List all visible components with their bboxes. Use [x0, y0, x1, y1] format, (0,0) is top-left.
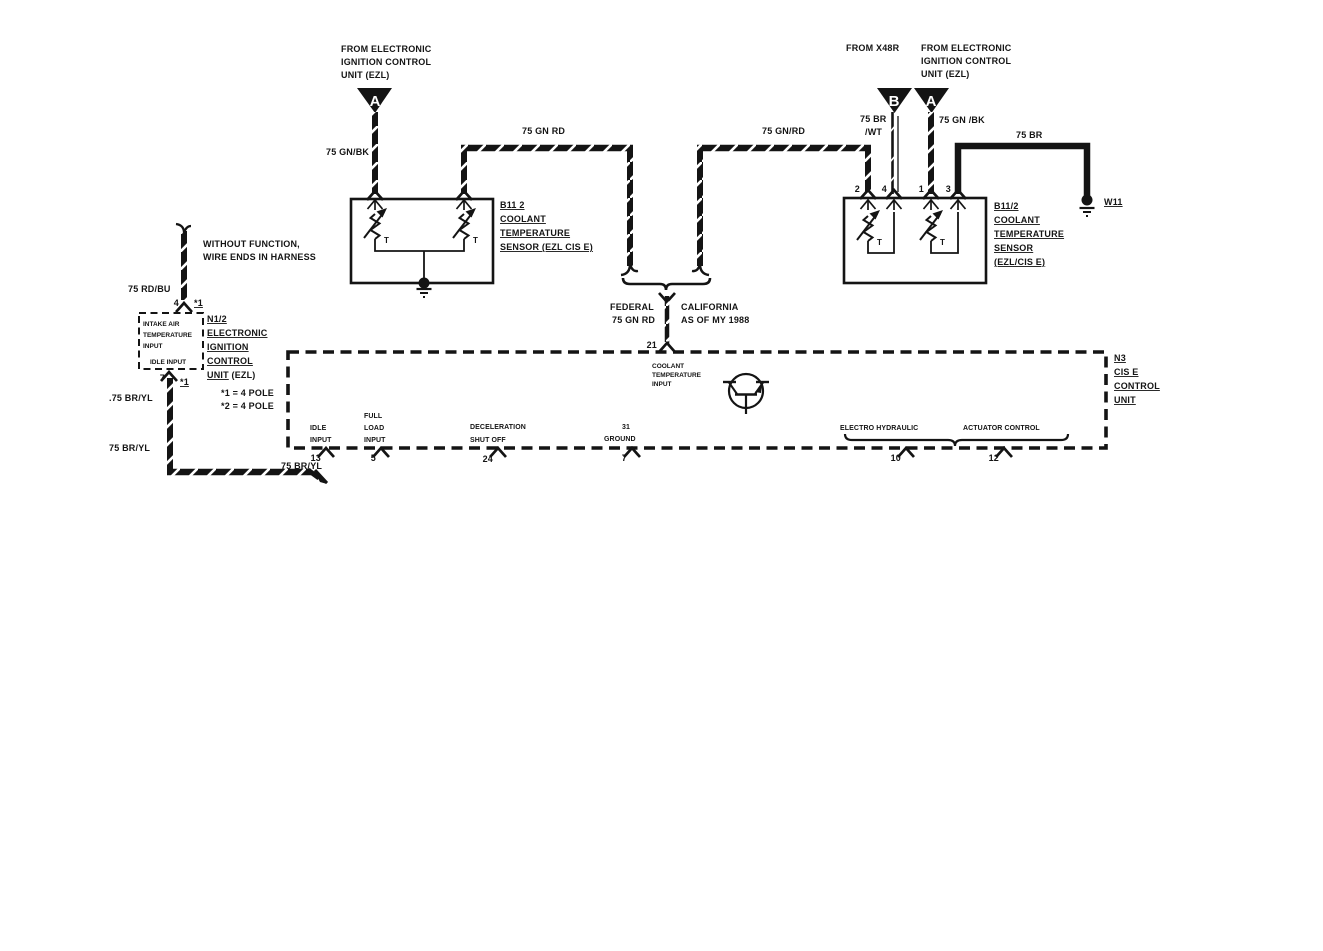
- pin arrow inside pin 3: [951, 200, 966, 210]
- pin arrow inside pin 1: [924, 200, 939, 210]
- svg-text:SENSOR (EZL CIS E): SENSOR (EZL CIS E): [500, 242, 593, 252]
- svg-text:T: T: [877, 238, 882, 247]
- pin arrow inside B11 2 right: [457, 200, 472, 210]
- svg-text:INPUT: INPUT: [364, 437, 386, 444]
- svg-text:CALIFORNIA: CALIFORNIA: [681, 302, 739, 312]
- svg-text:ELECTRONIC: ELECTRONIC: [207, 328, 268, 338]
- label CALIFORNIA AS OF MY 1988: [681, 302, 749, 325]
- svg-text:75 BR: 75 BR: [860, 114, 887, 124]
- svg-text:IGNITION CONTROL: IGNITION CONTROL: [921, 56, 1011, 66]
- label: from electronic ignition control unit (EZL) left: [341, 44, 432, 80]
- wire without function with hook end: [176, 224, 191, 300]
- svg-text:SENSOR: SENSOR: [994, 243, 1034, 253]
- svg-text:GROUND: GROUND: [604, 436, 636, 443]
- svg-text:FROM ELECTRONIC: FROM ELECTRONIC: [341, 44, 432, 54]
- arrow joining idle input wire: [308, 470, 327, 484]
- label coolant temperature input: [652, 363, 702, 388]
- wire 75 BR/WT thin pair from triangle B to pin 4: [890, 112, 898, 194]
- wire 75 GN/RD horizontal (right segment): [697, 145, 871, 152]
- svg-text:IGNITION: IGNITION: [207, 342, 249, 352]
- ground symbol under B11 2: [417, 289, 432, 297]
- svg-text:N3: N3: [1114, 353, 1126, 363]
- svg-text:TEMPERATURE: TEMPERATURE: [652, 372, 702, 379]
- svg-text:LOAD: LOAD: [364, 425, 384, 432]
- wire california option vertical with hook end: [692, 145, 709, 275]
- svg-text:N1/2: N1/2: [207, 314, 227, 324]
- svg-text:5: 5: [371, 453, 376, 463]
- inner bus wire of B11 2: [375, 239, 464, 283]
- svg-text:INTAKE AIR: INTAKE AIR: [143, 321, 180, 328]
- wire 75 GN/BK from triangle A to pin 1: [928, 112, 934, 194]
- svg-text:21: 21: [647, 340, 657, 350]
- brace selecting federal or california wire: [623, 278, 710, 290]
- transistor symbol inside N3: [723, 374, 769, 414]
- svg-text:75 GN RD: 75 GN RD: [612, 315, 655, 325]
- svg-text:IDLE INPUT: IDLE INPUT: [150, 359, 186, 366]
- svg-text:*1 = 4 POLE: *1 = 4 POLE: [221, 388, 274, 398]
- pin 12 fork and number: [989, 448, 1012, 463]
- svg-text:75 GN/BK: 75 GN/BK: [326, 147, 369, 157]
- label ELECTRO HYDRAULIC ACTUATOR CONTROL: [840, 425, 1040, 432]
- connector fork at B11 2 pin right: [456, 191, 472, 200]
- label N3 CIS E control unit: [1114, 353, 1160, 405]
- svg-text:*1: *1: [180, 377, 189, 387]
- svg-text:75 RD/BU: 75 RD/BU: [128, 284, 171, 294]
- label WITHOUT FUNCTION WIRE ENDS IN HARNESS: [203, 239, 316, 262]
- pin 24 fork and number: [483, 448, 506, 464]
- label B11/2 coolant temperature sensor (EZL/CIS E): [994, 201, 1064, 267]
- svg-text:7: 7: [622, 453, 627, 463]
- svg-text:CONTROL: CONTROL: [1114, 381, 1160, 391]
- thermistor right of B11 2: [453, 208, 478, 245]
- svg-text:13: 13: [311, 453, 321, 463]
- fork at pin 2: [860, 190, 876, 199]
- svg-text:FULL: FULL: [364, 413, 383, 420]
- svg-text:75 GN RD: 75 GN RD: [522, 126, 565, 136]
- svg-text:WITHOUT FUNCTION,: WITHOUT FUNCTION,: [203, 239, 300, 249]
- svg-text:A: A: [926, 93, 937, 110]
- wire 75 GN RD horizontal (left segment): [461, 145, 633, 152]
- label DECELERATION SHUT OFF (pin 24): [470, 424, 526, 444]
- pin arrow inside pin 2: [861, 200, 876, 210]
- svg-text:B11/2: B11/2: [994, 201, 1019, 211]
- svg-text:UNIT: UNIT: [1114, 395, 1136, 405]
- connector fork at B11 2 pin left: [367, 191, 383, 200]
- svg-text:COOLANT: COOLANT: [994, 215, 1040, 225]
- pin 5 fork and number: [371, 448, 389, 463]
- thermistor under pin 1: [920, 210, 945, 247]
- svg-text:24: 24: [483, 454, 493, 464]
- label B11 2 coolant temperature sensor: [500, 200, 593, 252]
- wire .75 BR/YL down from pin 7: [167, 378, 173, 472]
- label N1/2 electronic ignition control unit: [207, 314, 268, 380]
- thermistor under pin 2: [857, 210, 882, 247]
- off-page connector triangle B: [877, 88, 912, 113]
- svg-text:T: T: [384, 236, 389, 245]
- svg-text:75 GN/RD: 75 GN/RD: [762, 126, 805, 136]
- svg-text:UNIT (EZL): UNIT (EZL): [921, 69, 970, 79]
- svg-text:T: T: [473, 236, 478, 245]
- svg-text:SHUT OFF: SHUT OFF: [470, 437, 506, 444]
- svg-text:3: 3: [946, 184, 951, 194]
- svg-text:4: 4: [174, 298, 179, 308]
- control unit N3 dashed box: [288, 352, 1106, 448]
- wire 75 BR/YL horizontal to idle input junction: [167, 469, 311, 476]
- label 31 GROUND (pin 7): [604, 424, 636, 443]
- svg-text:TEMPERATURE: TEMPERATURE: [994, 229, 1064, 239]
- off-page connector triangle A (left): [357, 88, 392, 113]
- svg-text:ACTUATOR CONTROL: ACTUATOR CONTROL: [963, 425, 1040, 432]
- wire 75 BR from pin 3 to W11: [958, 146, 1087, 196]
- svg-text:12: 12: [989, 453, 999, 463]
- svg-text:75 BR: 75 BR: [1016, 130, 1043, 140]
- wire federal option vertical with hook end: [621, 145, 638, 275]
- pin arrow inside B11 2 left: [368, 200, 383, 210]
- svg-text:AS OF MY 1988: AS OF MY 1988: [681, 315, 749, 325]
- svg-text:ELECTRO HYDRAULIC: ELECTRO HYDRAULIC: [840, 425, 918, 432]
- sensor box B11 2: [351, 199, 493, 283]
- svg-text:COOLANT: COOLANT: [652, 363, 684, 370]
- svg-text:DECELERATION: DECELERATION: [470, 424, 526, 431]
- svg-text:IGNITION CONTROL: IGNITION CONTROL: [341, 57, 431, 67]
- dashed box N1/2 inputs: [139, 313, 203, 369]
- svg-text:UNIT (EZL): UNIT (EZL): [207, 370, 256, 380]
- svg-text:75 BR/YL: 75 BR/YL: [109, 443, 150, 453]
- inner bracket wire pins 1-3: [931, 212, 958, 253]
- svg-text:B: B: [889, 93, 900, 110]
- svg-text:UNIT (EZL): UNIT (EZL): [341, 70, 390, 80]
- off-page connector triangle A (right): [914, 88, 949, 113]
- label IDLE INPUT (pin 13): [310, 425, 332, 444]
- wire 75 GN RD vertical into B11 2 right pin: [461, 145, 467, 194]
- svg-text:(EZL/CIS E): (EZL/CIS E): [994, 257, 1045, 267]
- svg-text:COOLANT: COOLANT: [500, 214, 546, 224]
- svg-text:31: 31: [622, 424, 630, 431]
- svg-text:10: 10: [891, 453, 901, 463]
- wire 75 GN/RD into pin 2: [865, 145, 871, 194]
- svg-text:T: T: [940, 238, 945, 247]
- fork at pin 7 of N1/2: [161, 372, 177, 381]
- svg-text:*1: *1: [194, 298, 203, 308]
- label 75 BR /WT: [860, 114, 887, 137]
- svg-text:*2 = 4 POLE: *2 = 4 POLE: [221, 401, 274, 411]
- svg-text:TEMPERATURE: TEMPERATURE: [500, 228, 570, 238]
- svg-text:A: A: [370, 93, 381, 110]
- svg-text:2: 2: [855, 184, 860, 194]
- sensor box B11/2 (right): [844, 198, 986, 283]
- pin 21 fork at N3 edge: [659, 343, 675, 352]
- svg-text:CONTROL: CONTROL: [207, 356, 253, 366]
- fork at pin 4 of N1/2: [176, 303, 192, 312]
- svg-text:W11: W11: [1104, 197, 1123, 207]
- pin arrow inside pin 4: [887, 200, 902, 210]
- pin 7 fork and number: [622, 448, 640, 463]
- svg-text:75 GN /BK: 75 GN /BK: [939, 115, 985, 125]
- svg-text:IDLE: IDLE: [310, 425, 327, 432]
- svg-text:.75 BR/YL: .75 BR/YL: [109, 393, 153, 403]
- svg-text:INPUT: INPUT: [652, 381, 672, 388]
- label FEDERAL 75 GN RD: [610, 302, 655, 325]
- label FULL LOAD INPUT (pin 5): [364, 413, 386, 444]
- svg-text:4: 4: [882, 184, 887, 194]
- ground node dot of B11 2: [419, 278, 430, 289]
- fork at pin 4: [886, 190, 902, 199]
- inner bracket wire pins 2-4: [868, 212, 894, 253]
- ground node W11 (right): [1080, 195, 1095, 217]
- wire 75 GN/BK from triangle A to B11 2 pin: [372, 112, 378, 194]
- svg-text:WIRE ENDS IN HARNESS: WIRE ENDS IN HARNESS: [203, 252, 316, 262]
- fork at pin 3: [950, 190, 966, 199]
- wire from brace to pin 21: [659, 293, 675, 344]
- label intake air temperature input: [143, 321, 193, 366]
- svg-text:INPUT: INPUT: [143, 343, 163, 350]
- brace for actuator control pins: [845, 434, 1068, 446]
- pin 13 fork and number: [311, 448, 334, 463]
- svg-text:CIS E: CIS E: [1114, 367, 1139, 377]
- svg-text:/WT: /WT: [865, 127, 882, 137]
- svg-text:INPUT: INPUT: [310, 437, 332, 444]
- svg-text:TEMPERATURE: TEMPERATURE: [143, 332, 193, 339]
- thermistor left of B11 2: [364, 208, 389, 245]
- svg-text:1: 1: [919, 184, 924, 194]
- svg-text:FROM ELECTRONIC: FROM ELECTRONIC: [921, 43, 1012, 53]
- pin 10 fork and number: [891, 448, 914, 463]
- svg-text:FEDERAL: FEDERAL: [610, 302, 654, 312]
- label: from electronic ignition control unit (EZL) right: [921, 43, 1012, 79]
- svg-text:FROM X48R: FROM X48R: [846, 43, 900, 53]
- fork at pin 1: [923, 190, 939, 199]
- svg-text:B11 2: B11 2: [500, 200, 525, 210]
